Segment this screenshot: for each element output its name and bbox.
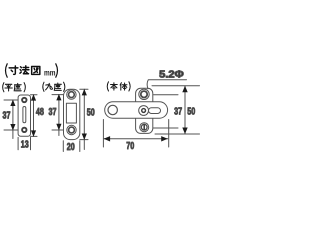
寸	[9, 66, 18, 74]
round seat plate	[64, 89, 80, 139]
ext line bottom hole right	[153, 127, 178, 129]
arm left hole	[108, 105, 117, 114]
dim 48 extension top	[31, 94, 38, 96]
dim 48 extension bottom	[31, 135, 38, 137]
round seat rectangular hole	[66, 103, 76, 123]
dim 50 line round seat	[83, 89, 85, 149]
dim 48 line	[33, 95, 35, 137]
座	[54, 83, 61, 91]
svg-text:70: 70	[126, 141, 134, 152]
ext line 70 right	[168, 120, 170, 148]
svg-text:13: 13	[21, 140, 29, 151]
丸	[46, 83, 53, 90]
dim 50 extension bottom	[80, 139, 88, 141]
round seat top hole	[67, 90, 76, 99]
svg-text:mm: mm	[44, 67, 56, 77]
flat seat bottom hole	[22, 128, 26, 132]
main body vertical plate	[136, 88, 153, 133]
flat seat extension line bottom hole	[4, 129, 21, 131]
round seat extension line top hole	[52, 94, 67, 96]
dim line 37/50	[184, 86, 186, 134]
svg-text:37: 37	[3, 110, 11, 121]
label (平座)	[3, 83, 26, 92]
ext line 70 left	[102, 120, 104, 148]
round seat extension line bottom hole	[52, 129, 67, 131]
title (寸法図 mm)	[6, 64, 58, 78]
体	[120, 83, 127, 90]
main body bottom screw	[140, 123, 149, 132]
ext line top hole right	[154, 94, 179, 96]
flat seat extension line top hole	[4, 99, 21, 101]
ext line plate bottom	[155, 133, 200, 135]
svg-text:48: 48	[36, 107, 44, 118]
main body top hole 5.2 dia	[139, 89, 149, 99]
ext line tab top	[152, 85, 200, 87]
main body arm	[105, 102, 168, 118]
svg-text:50: 50	[87, 107, 95, 118]
flat seat plate	[18, 95, 30, 136]
dim 70 line	[104, 138, 168, 140]
label 5.2 dia leader	[147, 80, 186, 89]
flat seat top hole	[22, 98, 26, 102]
svg-text:20: 20	[67, 142, 75, 153]
arm pivot	[139, 106, 149, 116]
label (本体)	[107, 82, 130, 91]
平	[5, 84, 12, 91]
svg-text:5.2Φ: 5.2Φ	[159, 69, 184, 80]
svg-text:37: 37	[49, 107, 57, 118]
dim 20 extension lines	[62, 141, 64, 152]
round seat bottom hole	[67, 125, 76, 134]
flat seat slot	[23, 107, 26, 123]
svg-text:37: 37	[174, 107, 182, 118]
dim 37 line round seat	[58, 95, 60, 136]
本	[111, 83, 118, 90]
法	[20, 66, 29, 74]
dim 13 extension lines	[17, 137, 19, 149]
label (丸座)	[43, 82, 65, 91]
arm slot	[149, 108, 161, 114]
dim 50 extension top	[80, 88, 88, 90]
座	[14, 83, 21, 91]
図	[32, 66, 40, 74]
dim 37 line flat seat	[12, 100, 14, 139]
svg-text:50: 50	[187, 107, 195, 118]
